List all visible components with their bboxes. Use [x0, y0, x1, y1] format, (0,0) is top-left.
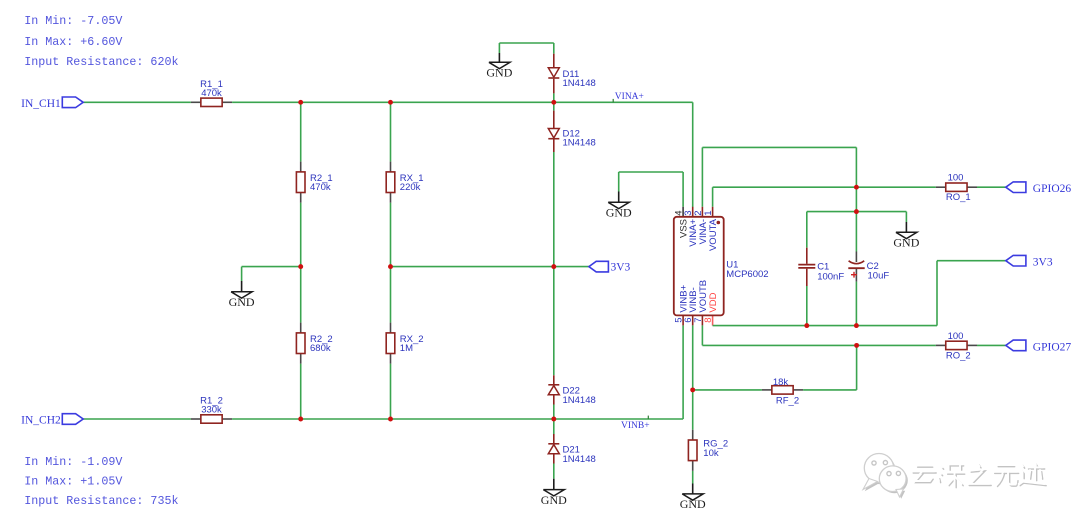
svg-text:1N4148: 1N4148 — [563, 454, 596, 465]
svg-text:1N4148: 1N4148 — [563, 78, 596, 89]
svg-text:Input Resistance: 620k: Input Resistance: 620k — [24, 55, 178, 69]
svg-text:10uF: 10uF — [868, 271, 890, 282]
svg-text:GND: GND — [229, 295, 255, 309]
svg-text:In Max: +6.60V: In Max: +6.60V — [24, 35, 122, 49]
svg-text:3V3: 3V3 — [611, 261, 631, 273]
svg-text:In Min: -1.09V: In Min: -1.09V — [24, 455, 122, 469]
svg-text:GND: GND — [486, 66, 512, 80]
svg-text:330k: 330k — [201, 405, 222, 416]
svg-text:MCP6002: MCP6002 — [726, 269, 768, 280]
svg-text:GND: GND — [680, 497, 706, 511]
svg-text:100: 100 — [948, 331, 964, 342]
svg-text:100: 100 — [948, 172, 964, 183]
svg-text:RF_2: RF_2 — [776, 395, 799, 406]
svg-text:GPIO26: GPIO26 — [1033, 183, 1072, 195]
svg-text:GND: GND — [541, 493, 567, 507]
svg-text:100nF: 100nF — [817, 271, 844, 282]
svg-text:1M: 1M — [400, 343, 413, 354]
svg-text:RO_1: RO_1 — [946, 192, 971, 203]
svg-text:1: 1 — [703, 211, 714, 216]
svg-text:IN_CH2: IN_CH2 — [21, 414, 61, 426]
svg-text:1N4148: 1N4148 — [563, 395, 596, 406]
svg-text:VDD: VDD — [708, 292, 719, 312]
svg-text:In Max: +1.05V: In Max: +1.05V — [24, 474, 122, 488]
svg-text:680k: 680k — [310, 343, 331, 354]
svg-text:IN_CH1: IN_CH1 — [21, 98, 61, 110]
svg-text:RO_2: RO_2 — [946, 351, 971, 362]
svg-text:470k: 470k — [310, 182, 331, 193]
svg-text:GND: GND — [893, 236, 919, 250]
svg-text:220k: 220k — [400, 182, 421, 193]
svg-text:470k: 470k — [201, 88, 222, 99]
svg-text:1N4148: 1N4148 — [563, 137, 596, 148]
svg-text:3V3: 3V3 — [1033, 257, 1053, 269]
svg-text:10k: 10k — [703, 448, 719, 459]
svg-text:VINA+: VINA+ — [615, 92, 644, 102]
svg-text:GPIO27: GPIO27 — [1033, 341, 1072, 353]
svg-text:VOUTA: VOUTA — [708, 218, 719, 251]
svg-text:18k: 18k — [773, 377, 789, 388]
svg-text:8: 8 — [703, 318, 714, 323]
svg-text:VINB+: VINB+ — [621, 421, 650, 431]
svg-text:Input Resistance: 735k: Input Resistance: 735k — [24, 494, 178, 508]
svg-text:GND: GND — [606, 206, 632, 220]
svg-text:In Min: -7.05V: In Min: -7.05V — [24, 14, 122, 28]
